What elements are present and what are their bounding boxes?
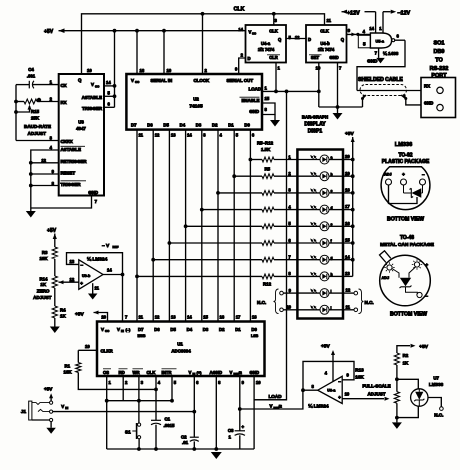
svg-text:ADJUST: ADJUST — [367, 391, 385, 396]
svg-text:SHIELDED CABLE: SHIELDED CABLE — [358, 77, 403, 83]
svg-text:(–): (–) — [126, 327, 132, 332]
svg-text:C3: C3 — [228, 428, 234, 433]
svg-text:R2: R2 — [403, 353, 409, 358]
svg-text:+: + — [402, 172, 405, 177]
svg-text:SERIAL OUT: SERIAL OUT — [227, 78, 254, 83]
svg-text:CLR: CLR — [269, 55, 278, 60]
svg-text:Q: Q — [78, 78, 82, 83]
svg-text:+12V: +12V — [347, 11, 360, 17]
svg-text:14: 14 — [345, 254, 350, 259]
svg-text:V: V — [270, 404, 273, 409]
svg-text:ADJ: ADJ — [382, 276, 390, 280]
svg-text:11: 11 — [139, 315, 144, 320]
svg-text:14: 14 — [187, 133, 192, 138]
svg-text:10: 10 — [256, 380, 261, 385]
svg-text:19: 19 — [85, 344, 90, 349]
svg-text:R4: R4 — [60, 308, 66, 313]
svg-text:.001: .001 — [27, 74, 36, 79]
svg-text:b: b — [331, 172, 333, 176]
svg-text:20: 20 — [101, 315, 106, 320]
svg-text:4047: 4047 — [76, 126, 86, 131]
svg-text:CX: CX — [61, 83, 67, 88]
svg-text:U4-b: U4-b — [320, 41, 330, 46]
svg-text:U3: U3 — [78, 120, 84, 125]
svg-text:U1: U1 — [177, 342, 183, 347]
svg-text:+: + — [338, 395, 341, 400]
svg-text:PLASTIC PACKAGE: PLASTIC PACKAGE — [382, 159, 430, 165]
svg-text:ADC0804: ADC0804 — [171, 348, 191, 353]
svg-text:74165: 74165 — [189, 104, 203, 110]
svg-text:R14: R14 — [39, 276, 48, 281]
svg-text:CLK: CLK — [147, 370, 157, 375]
svg-text:CS: CS — [103, 370, 109, 375]
svg-text:RX: RX — [424, 84, 430, 89]
svg-text:¼ LM324: ¼ LM324 — [87, 256, 108, 263]
svg-text:D: D — [248, 56, 251, 61]
svg-text:1.5K: 1.5K — [261, 147, 271, 152]
svg-text:–: – — [81, 262, 84, 267]
svg-text:V: V — [101, 327, 104, 332]
svg-text:N.C.: N.C. — [257, 300, 266, 305]
svg-text:CXRX: CXRX — [61, 139, 73, 144]
svg-text:U2: U2 — [193, 97, 199, 102]
svg-text:RETRIGGER: RETRIGGER — [61, 159, 88, 164]
svg-text:D3: D3 — [196, 123, 202, 128]
svg-text:RX: RX — [61, 100, 67, 105]
svg-text:LOAD: LOAD — [269, 394, 283, 399]
svg-text:LM336: LM336 — [395, 142, 412, 148]
svg-text:e: e — [331, 223, 333, 227]
svg-text:–12V: –12V — [398, 11, 411, 17]
svg-text:i: i — [331, 289, 332, 293]
svg-text:REF: REF — [113, 245, 119, 249]
svg-text:ASTABLE: ASTABLE — [82, 95, 102, 100]
svg-text:S1: S1 — [125, 429, 131, 434]
svg-text:15: 15 — [345, 238, 350, 243]
svg-text:g: g — [331, 256, 333, 260]
svg-text:D0: D0 — [251, 327, 257, 332]
svg-text:IN: IN — [65, 406, 68, 410]
svg-text:CLK: CLK — [320, 29, 329, 34]
svg-text:18: 18 — [345, 188, 350, 193]
svg-text:D2: D2 — [212, 123, 218, 128]
svg-text:d: d — [331, 206, 333, 210]
svg-text:D4: D4 — [187, 327, 193, 332]
svg-text:DB9: DB9 — [433, 49, 444, 55]
svg-text:ASTABLE: ASTABLE — [61, 147, 81, 152]
svg-text:19: 19 — [345, 171, 350, 176]
svg-text:V: V — [131, 78, 134, 83]
svg-text:V: V — [230, 370, 233, 375]
svg-text:1K: 1K — [40, 282, 46, 287]
svg-text:TRIGGER: TRIGGER — [82, 106, 103, 111]
svg-text:1/2 7474: 1/2 7474 — [318, 47, 335, 52]
svg-text:–: – — [422, 172, 425, 177]
svg-text:CLK: CLK — [234, 7, 245, 13]
svg-text:TRIGGER: TRIGGER — [61, 182, 82, 187]
svg-text:13: 13 — [171, 133, 176, 138]
svg-text:U6-b: U6-b — [82, 274, 91, 278]
svg-text:DISPLAY: DISPLAY — [304, 122, 326, 128]
svg-text:V: V — [189, 370, 192, 375]
svg-text:WR: WR — [133, 370, 141, 375]
svg-text:a: a — [331, 156, 333, 160]
svg-text:12: 12 — [70, 277, 75, 282]
svg-text:CC: CC — [252, 32, 256, 36]
svg-text:– V: – V — [102, 243, 110, 249]
svg-text:ADJ: ADJ — [384, 172, 392, 176]
svg-text:10: 10 — [345, 391, 350, 396]
svg-text:TO: TO — [435, 58, 443, 64]
svg-text:BAR-GRAPH: BAR-GRAPH — [302, 115, 328, 120]
svg-text:AGND: AGND — [210, 370, 223, 375]
svg-text:ADJUST: ADJUST — [33, 295, 52, 300]
svg-text:11: 11 — [95, 286, 100, 291]
svg-text:TO-46: TO-46 — [400, 235, 414, 241]
svg-text:ENABLE: ENABLE — [241, 98, 259, 103]
svg-text:CLK: CLK — [269, 29, 278, 34]
svg-text:h: h — [331, 273, 333, 277]
svg-text:V: V — [91, 82, 94, 87]
svg-text:TO-92: TO-92 — [398, 153, 412, 159]
svg-text:1K: 1K — [403, 360, 409, 365]
svg-text:10K: 10K — [355, 374, 364, 379]
svg-text:C2: C2 — [181, 434, 187, 439]
svg-text:+5V: +5V — [321, 344, 330, 350]
svg-text:J1: J1 — [21, 409, 27, 414]
svg-text:+5V: +5V — [345, 131, 354, 137]
svg-text:D1: D1 — [235, 327, 241, 332]
svg-text:12: 12 — [155, 315, 160, 320]
svg-text:+: + — [242, 424, 245, 429]
svg-text:RS-232: RS-232 — [430, 66, 449, 72]
svg-text:GND: GND — [250, 370, 260, 375]
svg-text:D5: D5 — [163, 123, 169, 128]
svg-text:U7: U7 — [433, 375, 439, 380]
svg-text:D7: D7 — [138, 327, 144, 332]
svg-text:14: 14 — [369, 26, 374, 31]
svg-text:IN: IN — [121, 329, 124, 333]
svg-text:17: 17 — [236, 315, 241, 320]
svg-text:+: + — [80, 281, 83, 286]
svg-text:D6: D6 — [154, 327, 160, 332]
svg-text:DISP1: DISP1 — [308, 128, 323, 134]
svg-text:j: j — [330, 306, 332, 310]
svg-text:FULL-SCALE: FULL-SCALE — [362, 383, 390, 388]
svg-text:C1: C1 — [165, 416, 171, 421]
svg-text:R12: R12 — [263, 282, 272, 287]
svg-text:R1: R1 — [65, 364, 71, 369]
svg-text:MSB: MSB — [138, 334, 146, 338]
svg-text:20: 20 — [345, 154, 350, 159]
svg-text:16: 16 — [220, 315, 225, 320]
svg-text:SET: SET — [311, 55, 320, 60]
svg-text:17: 17 — [345, 204, 350, 209]
svg-text:11: 11 — [139, 133, 144, 138]
svg-text:D3: D3 — [203, 327, 209, 332]
svg-text:25K: 25K — [31, 116, 40, 121]
svg-text:5: 5 — [363, 41, 366, 46]
svg-text:METAL CAN PACKAGE: METAL CAN PACKAGE — [380, 242, 435, 248]
svg-text:LOAD: LOAD — [249, 87, 261, 92]
svg-text:CLOCK: CLOCK — [194, 78, 210, 83]
svg-text:LSB: LSB — [251, 334, 259, 338]
svg-text:+5V: +5V — [44, 387, 53, 392]
svg-text:R13: R13 — [355, 368, 364, 373]
svg-text:10: 10 — [167, 68, 172, 73]
svg-text:LM336: LM336 — [429, 382, 444, 387]
svg-text:GND: GND — [367, 58, 378, 63]
svg-text:14: 14 — [187, 315, 192, 320]
svg-text:13: 13 — [345, 271, 350, 276]
svg-text:RESET: RESET — [61, 170, 76, 175]
svg-text:1K: 1K — [60, 313, 66, 318]
svg-text:10: 10 — [286, 305, 291, 310]
svg-text:13: 13 — [171, 315, 176, 320]
svg-text:+: + — [426, 263, 429, 268]
svg-text:N.C.: N.C. — [434, 413, 443, 418]
svg-text:+5V: +5V — [419, 344, 428, 350]
svg-text:PORT: PORT — [431, 73, 447, 79]
svg-text:R3: R3 — [42, 250, 48, 255]
svg-text:12: 12 — [155, 133, 160, 138]
svg-text:10K: 10K — [39, 256, 48, 261]
svg-text:c: c — [331, 189, 333, 193]
svg-text:1/2 7474: 1/2 7474 — [258, 47, 275, 52]
svg-text:SERIAL IN: SERIAL IN — [151, 78, 173, 83]
svg-text:ZERO: ZERO — [37, 289, 50, 294]
svg-text:D7: D7 — [131, 123, 137, 128]
svg-text:D0: D0 — [244, 123, 250, 128]
svg-text:12: 12 — [346, 288, 351, 293]
svg-text:13: 13 — [70, 259, 75, 264]
svg-text:14: 14 — [106, 80, 111, 85]
svg-text:CLKR: CLKR — [101, 349, 114, 354]
svg-text:BAUD-RATE: BAUD-RATE — [24, 124, 51, 129]
svg-text:N.C.: N.C. — [365, 300, 374, 305]
svg-text:D6: D6 — [147, 123, 153, 128]
svg-text:¼ 1488: ¼ 1488 — [383, 50, 399, 56]
svg-text:D1: D1 — [228, 123, 234, 128]
svg-text:BOTTOM VIEW: BOTTOM VIEW — [390, 311, 427, 317]
svg-text:IN: IN — [193, 372, 196, 376]
svg-text:ADJUST: ADJUST — [28, 131, 47, 136]
svg-text:D: D — [308, 37, 311, 42]
svg-text:INTR: INTR — [162, 370, 173, 375]
svg-text:+5V: +5V — [75, 311, 84, 317]
svg-text:BOTTOM VIEW: BOTTOM VIEW — [387, 217, 424, 223]
svg-text:¼ LM324: ¼ LM324 — [308, 403, 329, 410]
svg-text:+5V: +5V — [44, 29, 54, 35]
svg-text:10K: 10K — [64, 369, 73, 374]
svg-text:U5-a: U5-a — [376, 39, 385, 44]
svg-text:U6-a: U6-a — [327, 388, 336, 392]
svg-text:+5V: +5V — [47, 228, 57, 234]
svg-text:U4-a: U4-a — [261, 41, 271, 46]
svg-text:V: V — [117, 327, 120, 332]
svg-text:R5: R5 — [265, 167, 271, 172]
svg-text:V: V — [61, 404, 64, 409]
svg-text:D2: D2 — [219, 327, 225, 332]
svg-text:R5–R12: R5–R12 — [257, 141, 274, 146]
svg-text:.0015: .0015 — [164, 423, 176, 428]
svg-text:16: 16 — [345, 221, 350, 226]
svg-text:GND: GND — [424, 100, 433, 105]
svg-text:14: 14 — [107, 268, 112, 273]
svg-text:16: 16 — [140, 68, 145, 73]
svg-text:15: 15 — [265, 96, 270, 101]
svg-text:GND: GND — [88, 190, 98, 195]
svg-text:(+): (+) — [197, 370, 203, 375]
svg-text:11: 11 — [346, 304, 351, 309]
svg-text:SO1: SO1 — [433, 41, 444, 47]
svg-text:15: 15 — [203, 315, 208, 320]
svg-text:GND: GND — [249, 109, 259, 114]
svg-text:.01: .01 — [182, 440, 189, 445]
svg-text:D4: D4 — [180, 123, 186, 128]
svg-text:D5: D5 — [170, 327, 176, 332]
svg-text:R15: R15 — [31, 109, 40, 114]
svg-text:11: 11 — [327, 18, 332, 23]
svg-text:10: 10 — [87, 68, 92, 73]
svg-text:14: 14 — [238, 27, 243, 32]
svg-text:GND: GND — [329, 55, 338, 60]
svg-text:RD: RD — [119, 370, 125, 375]
svg-text:C4: C4 — [28, 67, 34, 72]
svg-text:18: 18 — [252, 315, 257, 320]
svg-text:12: 12 — [295, 35, 300, 40]
